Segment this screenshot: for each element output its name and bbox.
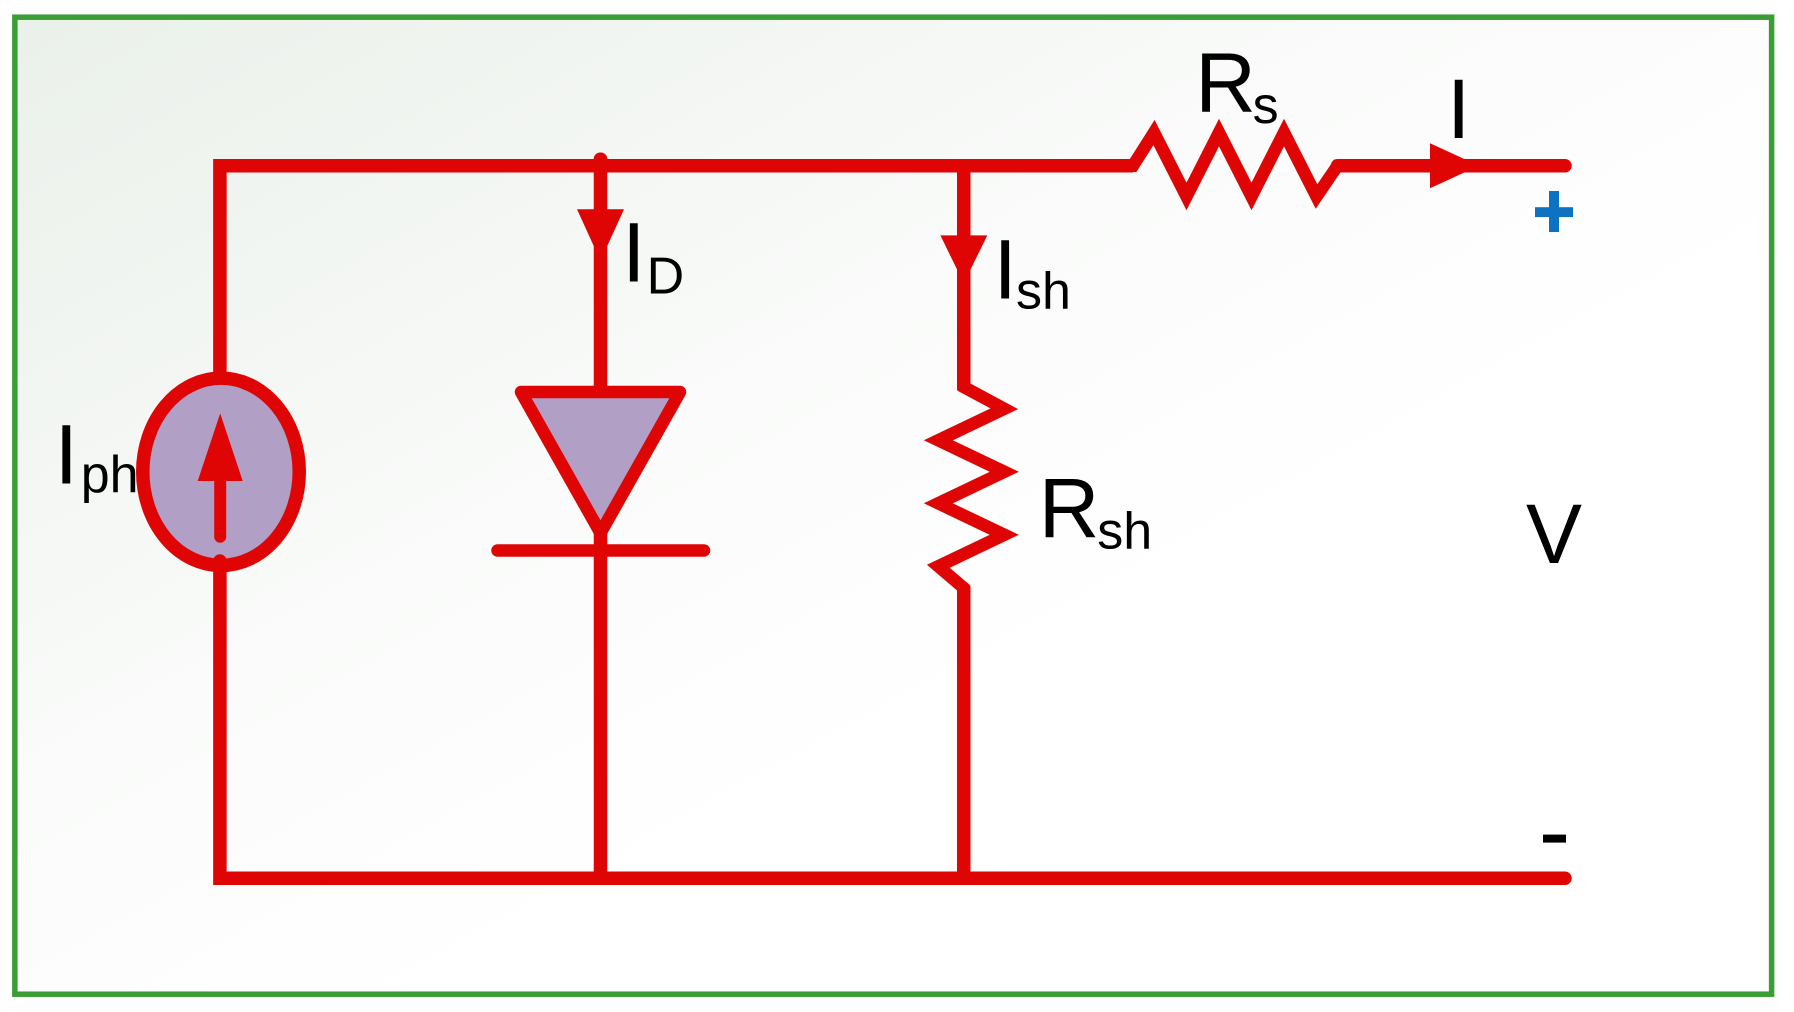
junction dot: diode branch / top bus xyxy=(594,152,608,166)
current source Iph circle xyxy=(143,378,300,565)
resistor Rs xyxy=(1124,133,1346,197)
current arrow Ish xyxy=(940,235,987,283)
wire: left branch vertical + top bus xyxy=(220,166,1133,380)
current arrow ID xyxy=(577,209,624,261)
wire: left branch lower vertical + bottom bus xyxy=(220,561,1565,878)
polarity + xyxy=(1535,191,1573,232)
diode cathode bar xyxy=(498,544,705,557)
current source arrow Iph xyxy=(198,413,243,536)
resistor Rsh xyxy=(938,378,1004,597)
wire: diode branch vertical xyxy=(594,159,608,878)
wire: shunt branch vertical (bottom) xyxy=(957,586,971,878)
current arrow I xyxy=(1430,143,1479,188)
wire: output lead (right of Rs) xyxy=(1338,159,1566,173)
wire: shunt branch vertical (top) xyxy=(957,160,971,390)
svg-text:V: V xyxy=(1526,487,1582,581)
svg-text:I: I xyxy=(1447,62,1470,156)
diode D triangle xyxy=(521,392,680,533)
polarity - xyxy=(1543,835,1566,843)
